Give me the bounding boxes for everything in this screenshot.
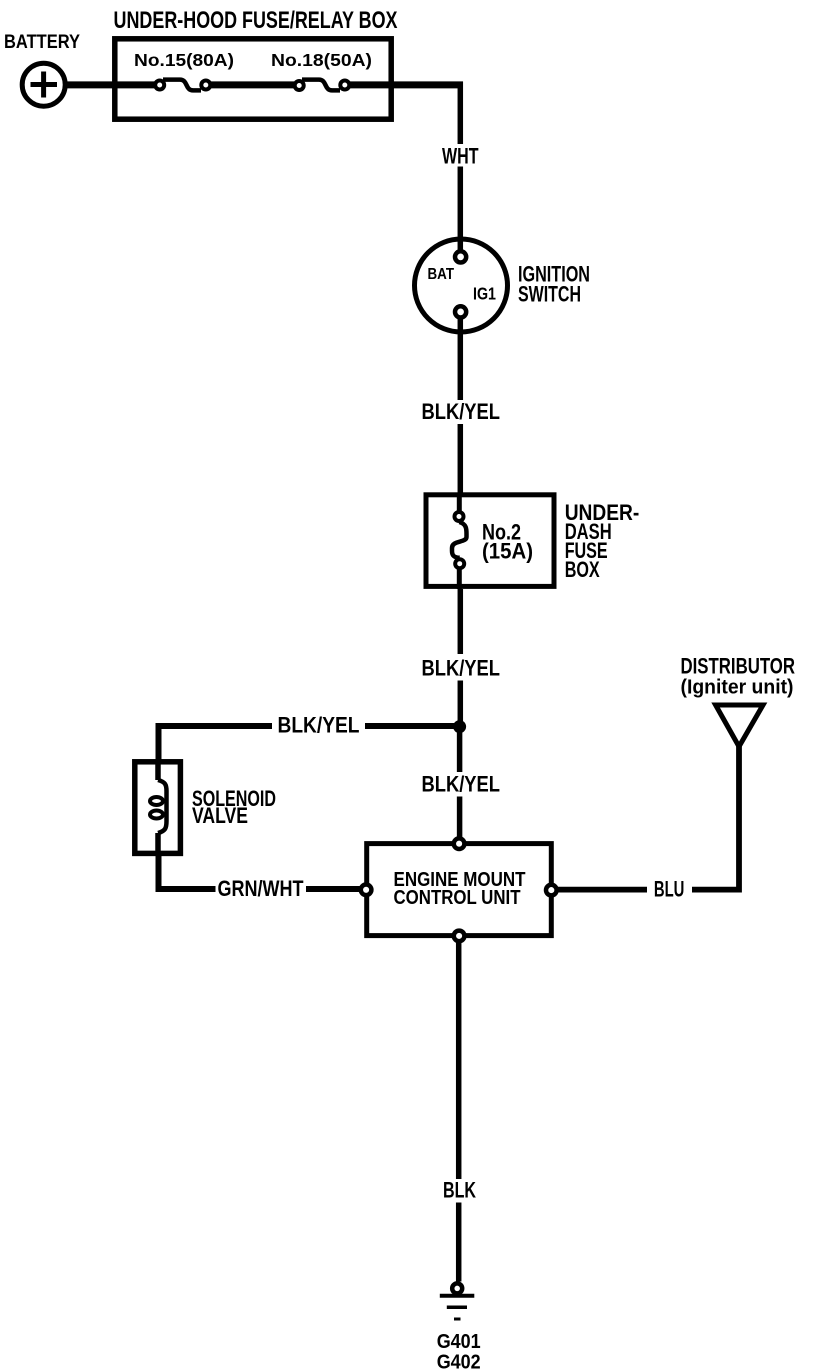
label fuse No.15(80A): [134, 50, 234, 70]
terminal IG1: [455, 306, 466, 317]
distributor (igniter unit): [716, 705, 763, 747]
wire BLK to ground: [456, 1203, 462, 1282]
svg-text:BATTERY: BATTERY: [4, 32, 80, 53]
label BLK/YEL (middle): [422, 656, 501, 681]
under-dash fuse box: [426, 495, 554, 587]
label DISTRIBUTOR (Igniter unit): [681, 653, 796, 698]
svg-text:UNDER-HOOD FUSE/RELAY BOX: UNDER-HOOD FUSE/RELAY BOX: [114, 7, 398, 34]
svg-text:BOX: BOX: [565, 557, 600, 582]
under-hood fuse/relay box: [115, 39, 391, 119]
wire EMCU bottom to BLK: [456, 942, 462, 1179]
fuse No.15 (80A): [155, 80, 210, 91]
terminal bottom: [454, 931, 465, 942]
label BLK/YEL (branch): [278, 713, 360, 738]
svg-text:G401: G401: [437, 1331, 481, 1353]
svg-text:G402: G402: [437, 1351, 481, 1370]
svg-text:BLU: BLU: [654, 877, 685, 902]
wire battery to under-hood box: [65, 81, 155, 88]
svg-text:DISTRIBUTOR: DISTRIBUTOR: [681, 653, 796, 678]
label UNDER-HOOD FUSE/RELAY BOX: [114, 7, 398, 34]
terminal right: [546, 885, 557, 896]
ground G401/G402: [440, 1283, 475, 1319]
svg-text:(Igniter unit): (Igniter unit): [681, 676, 794, 698]
svg-text:BLK/YEL: BLK/YEL: [422, 399, 501, 424]
solenoid valve: [135, 762, 181, 856]
svg-text:IG1: IG1: [473, 284, 496, 304]
svg-text:No.18(50A): No.18(50A): [271, 50, 372, 70]
label BLK: [443, 1178, 476, 1203]
wire BLU to distributor: [692, 744, 739, 890]
ignition switch: [415, 239, 508, 332]
wire fuse2 to corner and down (WHT): [350, 82, 463, 145]
svg-text:SWITCH: SWITCH: [518, 282, 581, 307]
wire junction to engine mount control unit: [457, 726, 463, 772]
svg-text:BLK/YEL: BLK/YEL: [422, 656, 501, 681]
wire BLK/YEL to under-dash fuse box: [458, 424, 464, 496]
svg-text:No.15(80A): No.15(80A): [134, 50, 234, 70]
label IGNITION SWITCH: [518, 262, 590, 307]
label No.2 (15A): [482, 520, 533, 564]
label fuse No.18(50A): [271, 50, 372, 70]
wire BLU (EMCU right terminal): [558, 887, 647, 893]
svg-text:(15A): (15A): [482, 539, 533, 564]
terminal top: [454, 838, 465, 849]
wire BLK/YEL to EMCU top terminal: [457, 797, 463, 841]
label G401: [437, 1331, 481, 1353]
label BLK/YEL (upper): [422, 399, 501, 424]
wire BLK/YEL to junction: [458, 681, 464, 727]
fuse No.2 (15A): [452, 494, 467, 589]
svg-text:BLK/YEL: BLK/YEL: [278, 713, 360, 738]
battery: [22, 63, 65, 106]
label BLK/YEL (lower): [422, 772, 501, 797]
svg-text:GRN/WHT: GRN/WHT: [218, 876, 304, 901]
wire WHT to ignition switch BAT terminal: [458, 167, 464, 251]
fuse No.18 (50A): [295, 80, 350, 91]
label G402: [437, 1351, 481, 1370]
terminal BAT: [455, 251, 466, 262]
label WHT: [442, 144, 479, 169]
terminal left: [361, 885, 372, 896]
svg-text:WHT: WHT: [442, 144, 479, 169]
wire IG1 to under-dash fuse box (BLK/YEL): [458, 319, 464, 401]
label UNDER-DASH FUSE BOX: [565, 500, 640, 582]
label BLU: [654, 877, 685, 902]
junction: [453, 720, 466, 733]
wire GRN/WHT to EMCU left terminal: [306, 886, 363, 892]
label SOLENOID VALVE: [192, 786, 276, 828]
wire solenoid valve down to GRN/WHT corner: [156, 854, 216, 889]
engine mount control unit: [361, 838, 557, 941]
wire fuse1 to fuse2: [211, 81, 294, 88]
label BATTERY: [4, 32, 80, 53]
wire branch left (BLK/YEL): [156, 723, 460, 729]
svg-text:BAT: BAT: [428, 266, 455, 283]
label GRN/WHT: [218, 876, 304, 901]
wire corner down to solenoid valve: [156, 723, 162, 762]
svg-text:CONTROL UNIT: CONTROL UNIT: [394, 887, 521, 909]
wire under-dash fuse box down (BLK/YEL): [458, 589, 464, 654]
svg-text:VALVE: VALVE: [192, 803, 248, 828]
svg-text:BLK/YEL: BLK/YEL: [422, 772, 501, 797]
svg-text:BLK: BLK: [443, 1178, 476, 1203]
